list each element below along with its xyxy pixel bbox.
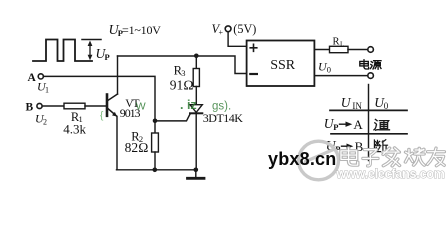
amplitude double arrow [88, 41, 93, 61]
SSR module [247, 41, 315, 87]
ground [188, 170, 205, 179]
wire B to R1 [42, 105, 64, 107]
bottom rail [117, 169, 196, 171]
svg-text:0: 0 [327, 64, 331, 74]
truth table vertical line [368, 85, 370, 161]
label V+ [212, 22, 224, 37]
label Up (amplitude) [96, 46, 110, 62]
label U1 [37, 80, 49, 95]
output terminal top [368, 47, 374, 53]
svg-text:B: B [26, 101, 34, 113]
wire junction to R3 [195, 56, 197, 69]
svg-text:www.elecfans.com: www.elecfans.com [336, 167, 445, 181]
wire emitter down [116, 117, 118, 170]
svg-text:P: P [333, 122, 338, 132]
label VT 9013 [120, 98, 141, 120]
label minus [250, 73, 257, 75]
watermark chinese elecfans [341, 148, 444, 166]
resistor R3 [193, 69, 199, 87]
wire thyristor cathode to rail [195, 113, 197, 170]
table row Up to A [324, 116, 364, 132]
wire R3 to thyristor [195, 87, 197, 105]
svg-text:3: 3 [181, 68, 185, 78]
wire Vc to SSR plus input [228, 32, 247, 47]
svg-text:W: W [136, 101, 146, 113]
resistor RL [330, 46, 349, 52]
svg-text:A: A [353, 117, 363, 132]
junction dot R2 bottom [153, 168, 158, 173]
wire thyristor gate to node [155, 114, 190, 121]
label U0 [318, 60, 331, 75]
svg-text:P: P [105, 52, 110, 62]
svg-text:(5V): (5V) [233, 22, 256, 36]
wire R1 to base [85, 105, 106, 107]
svg-text:91Ω: 91Ω [170, 78, 194, 93]
table row Up to B [326, 138, 364, 154]
wire collector up [117, 56, 119, 94]
label plus [250, 44, 257, 51]
table cell duan (off) [374, 140, 387, 152]
svg-text:SSR: SSR [270, 58, 296, 73]
wire SSR to RL [314, 49, 329, 51]
wire R2 to rail [154, 152, 156, 170]
transistor VT 9013 (NPN) [107, 94, 118, 117]
amplitude marker ticks [82, 39, 101, 41]
svg-text:3DT14K: 3DT14K [203, 111, 243, 125]
terminal Vc [225, 26, 231, 32]
wire A to gate node [44, 76, 156, 120]
svg-text:R: R [333, 37, 340, 48]
thyristor VS 3DT14K [190, 105, 202, 114]
svg-text:. iz: . iz [180, 98, 197, 112]
wire gate node to R2 [154, 121, 156, 133]
wire SSR bottom output [314, 75, 367, 77]
label R1 [71, 110, 83, 124]
svg-text:82Ω: 82Ω [125, 140, 149, 155]
truth table line 2 [331, 133, 407, 135]
svg-text:0: 0 [384, 101, 389, 111]
svg-text:U: U [341, 95, 352, 110]
junction dot R3 top [194, 54, 199, 59]
svg-text:+: + [219, 28, 224, 37]
wire RL to terminal [348, 49, 368, 51]
table header U0 [374, 95, 388, 111]
top rail wire to SSR minus input [118, 56, 247, 74]
label RL [333, 37, 345, 49]
pulse waveform [33, 40, 92, 62]
svg-text:L: L [340, 40, 344, 48]
table header Uin [341, 95, 363, 111]
terminal B [37, 103, 42, 108]
label U2 [35, 111, 47, 126]
watermark ring logo [299, 141, 339, 180]
junction dot cathode rail [194, 168, 199, 173]
svg-text:IN: IN [352, 101, 362, 111]
output terminal bottom [368, 73, 374, 79]
svg-text:ybx8.cn: ybx8.cn [268, 149, 336, 169]
svg-text:=1~10V: =1~10V [122, 23, 161, 37]
svg-text:A: A [28, 72, 37, 84]
label R3 [174, 63, 186, 78]
svg-text:gs).: gs). [212, 101, 231, 113]
truth table line 1 [330, 109, 407, 111]
svg-text:{: { [100, 111, 104, 122]
resistor R1 [64, 103, 85, 109]
svg-text:1: 1 [45, 86, 49, 95]
resistor R2 [152, 133, 159, 152]
label R2 [131, 130, 143, 144]
label dianyuan (power) [360, 60, 381, 69]
svg-text:2: 2 [43, 117, 47, 126]
terminal A [38, 74, 43, 79]
svg-text:4.3k: 4.3k [63, 122, 86, 137]
junction dot gate node [153, 119, 158, 124]
label Up = 1~10V [109, 23, 162, 38]
table cell tong (on) [374, 119, 390, 130]
